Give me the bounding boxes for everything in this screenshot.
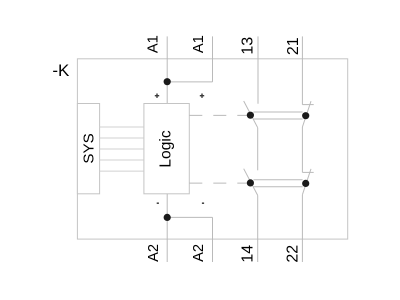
- svg-text:21: 21: [285, 37, 302, 55]
- wire: dashed actuation link upper (Logic to contact bar): [189, 114, 247, 116]
- svg-text:A2: A2: [146, 244, 162, 262]
- wire: NC contact down to terminal 22: [301, 195, 303, 262]
- white panel background (opaque content area): [50, 0, 350, 262]
- pivot dot upper NC contact: [302, 112, 309, 119]
- svg-text:Logic: Logic: [158, 130, 175, 167]
- svg-text:22: 22: [285, 245, 302, 263]
- wire: mid vertical 21/22 column: [301, 127, 303, 172]
- svg-text:13: 13: [240, 37, 257, 55]
- linkage bar lower (bottom line): [254, 186, 303, 188]
- NC contact 21-22 upper: blade: [302, 101, 311, 127]
- pivot dot lower NO contact: [247, 179, 254, 186]
- polarity mark + (left): [155, 94, 159, 98]
- wire: mid vertical 13/14 column: [257, 128, 259, 171]
- pivot dot upper NO contact: [247, 112, 254, 119]
- wire: SYS-Logic connection line 4: [100, 159, 144, 161]
- Logic block: [144, 104, 189, 194]
- wire: dashed actuation link lower (Logic to contact bar): [189, 182, 247, 184]
- outer boundary box: [77, 59, 347, 239]
- wire: terminal 13 down to NO contact: [257, 36, 259, 103]
- wire: terminal A1 (second) vertical stub: [212, 36, 214, 82]
- wire: SYS-Logic connection line 3: [100, 148, 144, 150]
- wire: SYS-Logic connection line 5: [100, 170, 144, 172]
- wire: Logic coil output down to terminal A2 (first): [166, 194, 168, 262]
- wire: terminal 21 down to NC contact: [301, 36, 303, 104]
- pivot dot lower NC contact: [302, 180, 309, 187]
- svg-text:A2: A2: [191, 244, 207, 262]
- wire: terminal A2 (second) vertical stub: [212, 217, 214, 262]
- junction dot at A2 node: [164, 214, 171, 221]
- svg-text:A1: A1: [191, 35, 207, 53]
- linkage bar upper (bottom line): [254, 118, 303, 120]
- NO contact lower: blade: [244, 169, 258, 196]
- svg-text:-K: -K: [52, 61, 70, 80]
- NC contact lower: blade: [302, 169, 311, 195]
- NO contact 13-14 upper: blade: [244, 101, 258, 128]
- polarity mark - (left): [157, 202, 159, 204]
- polarity mark - (right): [202, 202, 204, 204]
- linkage bar lower (top line): [254, 179, 303, 181]
- NC contact lower: stop tick: [302, 171, 313, 173]
- polarity mark + (right): [200, 94, 204, 98]
- bottom strip: white RGB, near-zero alpha (matches reference storage): [50, 262, 350, 300]
- wire: SYS-Logic connection line 2: [100, 137, 144, 139]
- junction dot at A1 node: [164, 78, 171, 85]
- wire: A2 bridge horizontal: [167, 216, 212, 218]
- wire: A1 bridge horizontal: [167, 81, 212, 83]
- NC contact 21-22 upper: stop tick: [302, 104, 313, 106]
- svg-text:14: 14: [240, 245, 257, 263]
- SYS block: [77, 104, 99, 194]
- svg-text:SYS: SYS: [81, 133, 98, 163]
- svg-text:A1: A1: [146, 35, 162, 53]
- wire: NO contact down to terminal 14: [257, 195, 259, 262]
- wire: terminal A1 (first) down to Logic coil input: [166, 36, 168, 103]
- wire: SYS-Logic connection line 1: [100, 126, 144, 128]
- linkage bar upper (top line): [254, 111, 303, 113]
